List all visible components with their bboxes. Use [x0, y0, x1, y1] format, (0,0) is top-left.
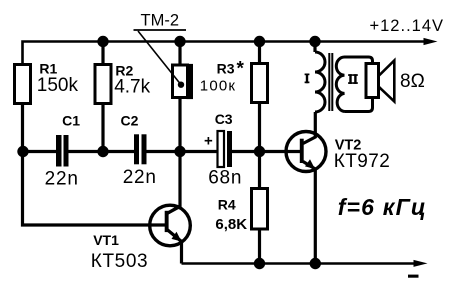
svg-text:C2: C2	[121, 113, 139, 129]
svg-text:100к: 100к	[200, 78, 236, 95]
svg-text:f=6 кГц: f=6 кГц	[338, 194, 427, 220]
svg-text:4.7k: 4.7k	[114, 77, 150, 98]
svg-text:6,8K: 6,8K	[215, 216, 247, 233]
svg-text:R3: R3	[217, 61, 235, 77]
svg-text:22n: 22n	[123, 167, 157, 188]
svg-text:8Ω: 8Ω	[400, 71, 425, 92]
svg-text:+: +	[204, 133, 213, 150]
svg-text:C3: C3	[215, 111, 233, 127]
svg-text:R4: R4	[218, 197, 236, 213]
svg-text:VT1: VT1	[93, 232, 119, 248]
svg-text:150k: 150k	[37, 75, 79, 96]
svg-text:+12..14V: +12..14V	[370, 17, 445, 35]
svg-text:22n: 22n	[45, 169, 79, 190]
svg-text:*: *	[237, 58, 245, 79]
svg-text:КТ503: КТ503	[91, 251, 148, 272]
svg-text:68n: 68n	[208, 167, 242, 188]
svg-text:C1: C1	[62, 113, 80, 129]
svg-text:КТ972: КТ972	[334, 151, 390, 172]
svg-text:TM-2: TM-2	[141, 12, 180, 30]
